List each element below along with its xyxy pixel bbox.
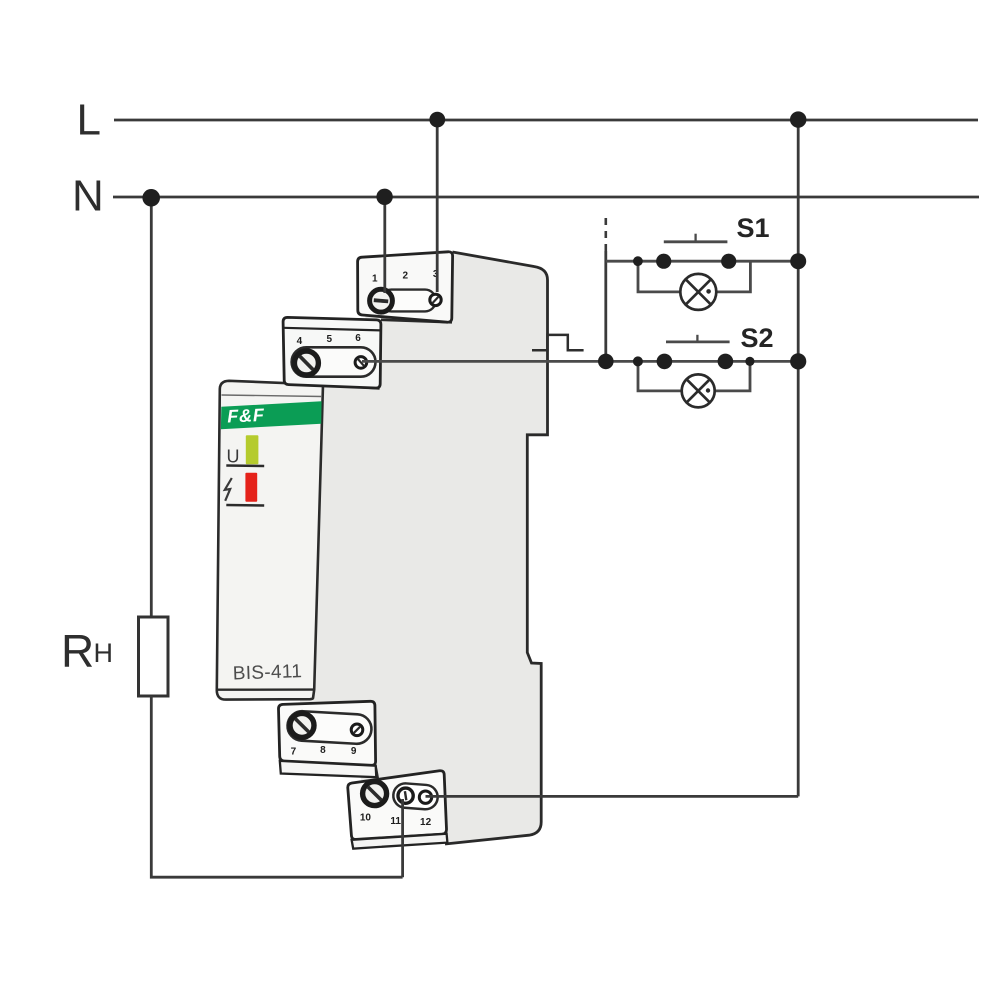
block 7-8-9 bevel strip — [280, 761, 377, 777]
body edge face to block456 — [323, 385, 380, 389]
svg-text:1: 1 — [372, 274, 378, 285]
terminal 6 screw — [355, 357, 367, 369]
svg-text:BIS-411: BIS-411 — [232, 661, 302, 684]
lamp E1 branch — [638, 261, 750, 292]
wire L line — [114, 119, 978, 122]
terminal 3 screw — [430, 294, 441, 305]
svg-text:9: 9 — [351, 746, 357, 757]
F&F green stripe — [221, 401, 322, 429]
terminal block 1-2-3 — [358, 252, 453, 322]
wire S1 row — [606, 260, 798, 263]
wire resistor to bottom — [151, 696, 402, 877]
relay symbol — [225, 478, 232, 501]
terminal 12 screw — [419, 791, 431, 803]
terminal block 7-8-9 — [278, 701, 375, 765]
svg-text:4: 4 — [297, 336, 303, 347]
resistor RH — [139, 617, 169, 696]
lamp E1 — [680, 274, 716, 310]
body shoulder edge — [381, 320, 452, 323]
wire N line — [113, 196, 979, 199]
F&F logo — [227, 405, 265, 427]
svg-text:6: 6 — [355, 333, 361, 344]
wire S1 to S2 vertical — [604, 251, 607, 361]
lamp E2 — [682, 374, 715, 407]
junction N x385 — [376, 189, 392, 205]
node dots S2 — [598, 354, 614, 370]
block 4-5-6 bevel line — [283, 328, 380, 331]
front face — [217, 381, 323, 700]
svg-text:11: 11 — [390, 816, 401, 827]
front face inner top line — [222, 395, 323, 397]
LED relay red — [245, 473, 257, 502]
pulse symbol — [532, 335, 584, 350]
svg-text:H: H — [94, 638, 114, 668]
front face bevel line — [217, 688, 314, 691]
body outline — [445, 252, 548, 844]
block 10-11-12 bevel strip — [352, 834, 448, 849]
terminal 9 screw — [351, 724, 363, 736]
terminal slot 11-12 — [392, 783, 438, 811]
wire right vertical from L — [797, 120, 800, 796]
svg-text:F&F: F&F — [227, 405, 265, 427]
junction L x437 — [429, 112, 445, 128]
svg-text:L: L — [77, 96, 101, 145]
wire terminal 12 to right vertical — [426, 795, 799, 798]
junction N x151 — [142, 189, 160, 207]
wire N to resistor RH — [150, 197, 153, 617]
LED U green — [246, 435, 259, 464]
svg-text:5: 5 — [327, 334, 333, 345]
svg-text:U: U — [227, 447, 240, 467]
terminal 4 screw — [294, 351, 318, 375]
switch S1 — [664, 240, 728, 243]
junction L x798 — [790, 111, 806, 127]
terminal 1 screw — [370, 289, 393, 312]
svg-text:S2: S2 — [741, 323, 774, 353]
lamp E2 branch — [638, 361, 750, 391]
relay module body — [290, 252, 548, 844]
terminal slot 7-9 — [287, 710, 373, 744]
svg-text:2: 2 — [403, 271, 409, 282]
wire terminal 11 down — [401, 799, 404, 877]
terminal 10 screw — [363, 782, 387, 806]
body edge block789 to block101112 — [376, 766, 379, 783]
terminal 11 screw — [398, 788, 413, 803]
label BIS-411 — [232, 661, 302, 684]
wire N to terminal 1 — [383, 197, 386, 293]
underline relay — [226, 504, 264, 507]
dashed extension wire — [604, 218, 607, 251]
svg-text:S1: S1 — [737, 213, 770, 243]
terminal block 10-11-12 — [348, 771, 447, 840]
svg-text:12: 12 — [420, 817, 432, 828]
node dots S1 — [633, 256, 643, 266]
svg-text:7: 7 — [291, 746, 297, 757]
switch S2 — [666, 340, 730, 343]
svg-text:10: 10 — [360, 813, 372, 824]
terminal 7 screw — [290, 713, 314, 737]
wire L to terminal 3 — [436, 120, 439, 292]
svg-text:8: 8 — [320, 745, 326, 756]
svg-text:R: R — [61, 625, 94, 677]
wire terminal 6 to S2 row — [362, 360, 798, 363]
terminal block 4-5-6 — [283, 317, 381, 388]
terminal slot 1-3 — [381, 290, 436, 312]
underline U — [226, 464, 264, 467]
svg-text:N: N — [72, 172, 104, 221]
terminal slot 4-6 — [292, 347, 376, 376]
